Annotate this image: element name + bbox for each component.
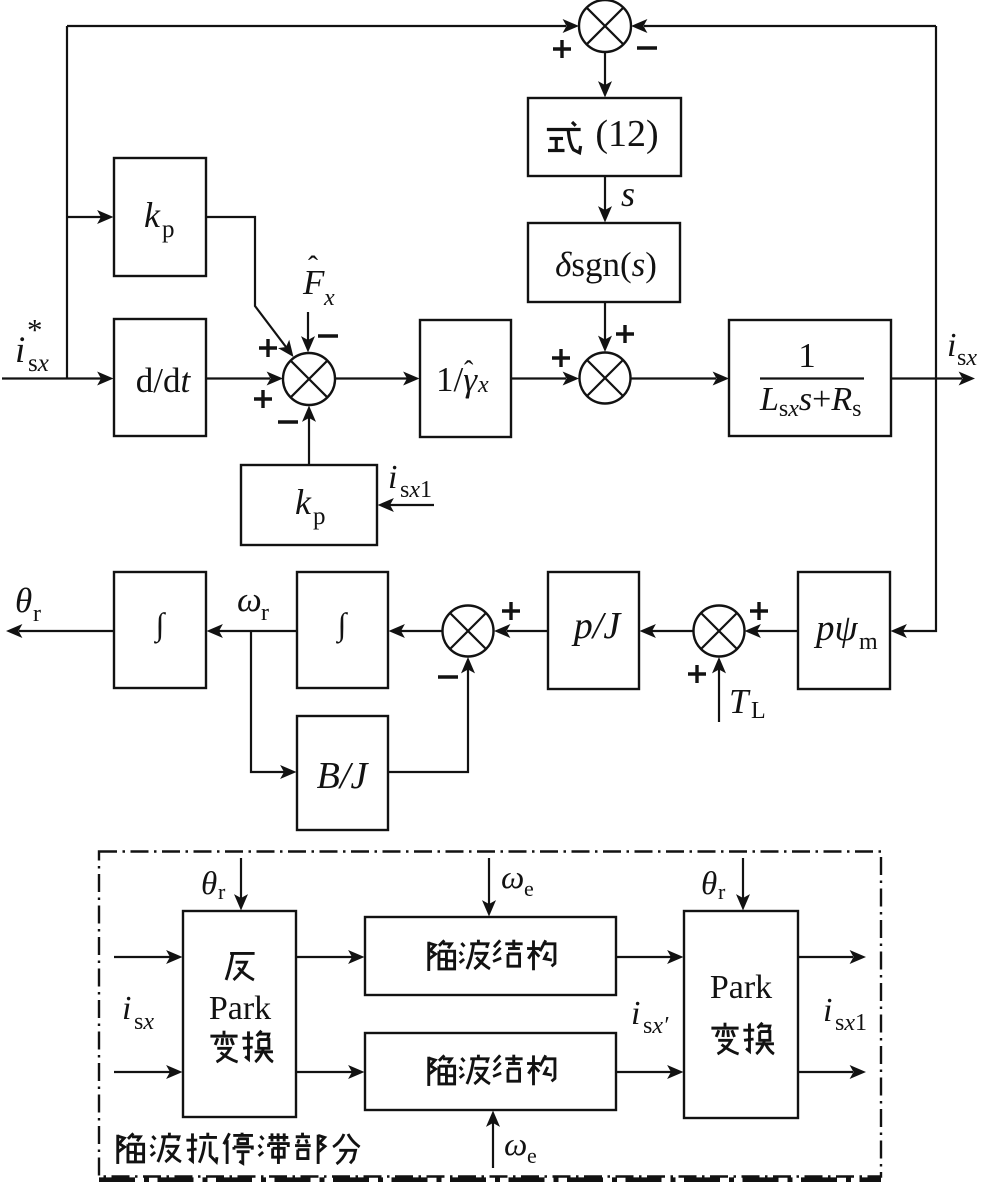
wire theta-r into PARK top	[736, 858, 750, 911]
wire IPARK to NOTCH1	[296, 950, 365, 964]
summing junction S2	[283, 353, 335, 405]
wire left vertical from S1 to input row	[66, 26, 68, 379]
svg-text:(12): (12)	[595, 113, 658, 155]
svg-text:B/J: B/J	[317, 755, 370, 797]
svg-text:sx′: sx′	[643, 1013, 669, 1039]
dash-dot enclosure notch-filter section	[99, 852, 881, 1177]
plus sign S3 left	[552, 349, 570, 367]
svg-text:sx: sx	[134, 1009, 154, 1035]
minus sign S2 bottom	[278, 420, 298, 423]
label section title notch anti-stagnation	[118, 1133, 360, 1164]
svg-text:ˆ: ˆ	[464, 356, 474, 387]
wire S3 to PLANT block	[631, 372, 730, 386]
block PARK transform	[684, 911, 798, 1118]
label isx bottom input	[122, 990, 154, 1035]
wire PLANT output isx	[891, 372, 975, 386]
block KP2 kp	[241, 465, 377, 545]
block PJ p/J	[548, 572, 639, 689]
wire Fx-hat into S2	[301, 312, 315, 353]
minus sign S2 top-right	[318, 334, 338, 337]
svg-text:e: e	[524, 876, 534, 901]
svg-text:∫: ∫	[336, 606, 349, 644]
label EQ12 text shi(12)	[547, 113, 659, 155]
block NOTCH1	[365, 917, 616, 995]
block PLANT 1/(Lsx s+Rs)	[729, 320, 891, 436]
wire theta-r into IPARK top	[234, 858, 248, 911]
wire BJ output up into S4	[388, 657, 475, 772]
block PSIM p-psi-m	[798, 572, 890, 689]
wire input isx upper into IPARK	[114, 950, 183, 964]
plus sign S2 lower-left	[254, 390, 272, 408]
wire omega-e into NOTCH2 bottom	[486, 1111, 500, 1169]
svg-text:r: r	[261, 600, 269, 626]
wire INT2 to INT1	[207, 624, 298, 638]
wire branch into KP1	[67, 210, 114, 224]
wire S5 to PJ	[640, 624, 694, 638]
svg-text:r: r	[33, 601, 41, 627]
wire input isx lower into IPARK	[114, 1065, 183, 1079]
label isx-prime	[631, 995, 669, 1039]
label omega-e top	[501, 860, 534, 901]
fraction bar PLANT	[760, 377, 864, 379]
label TL	[729, 682, 766, 724]
block INT2 integrator	[297, 572, 388, 688]
wire S4 to INT2	[389, 624, 443, 638]
svg-text:ω: ω	[501, 860, 524, 896]
svg-text:i: i	[122, 990, 131, 1027]
svg-text:θ: θ	[201, 866, 217, 902]
svg-text:*: *	[27, 312, 43, 347]
wire PARK output lower isx1	[798, 1065, 866, 1079]
block INT1 integrator	[114, 572, 206, 688]
wire S1 to box EQ12	[598, 52, 612, 98]
svg-text:ω: ω	[237, 580, 262, 619]
plus sign S2 upper-left	[259, 339, 277, 357]
svg-text:r: r	[218, 879, 226, 904]
svg-text:δsgn(s): δsgn(s)	[555, 245, 657, 284]
svg-text:i: i	[823, 992, 832, 1029]
svg-text:∫: ∫	[154, 606, 167, 644]
wire PJ to S4	[494, 624, 548, 638]
svg-text:θ: θ	[701, 866, 717, 902]
label omega-r	[237, 580, 269, 626]
svg-text:sx: sx	[28, 350, 49, 377]
svg-text:Park: Park	[710, 969, 772, 1006]
svg-text:d/dt: d/dt	[136, 361, 192, 400]
svg-text:x: x	[477, 372, 489, 398]
label isx output	[947, 327, 977, 371]
block KP1 kp	[114, 158, 206, 276]
wire input i*sx to d/dt	[2, 372, 114, 386]
label theta-r output	[15, 581, 41, 627]
svg-text:k: k	[295, 482, 312, 522]
wire top-right feedback into S1	[631, 19, 936, 33]
wire isx1 into KP2	[378, 498, 435, 512]
svg-text:1: 1	[798, 336, 816, 375]
wire omega-r branch down to BJ	[251, 631, 284, 772]
svg-text:Lsxs+Rs: Lsxs+Rs	[759, 381, 861, 422]
svg-text:i: i	[947, 327, 956, 364]
wire EQ12 to DSGN with node s	[598, 176, 612, 223]
wire PARK output upper isx1	[798, 950, 866, 964]
svg-text:sx1: sx1	[400, 477, 432, 503]
label theta-r above PARK	[701, 866, 726, 904]
svg-text:sx1: sx1	[835, 1010, 867, 1036]
wire IPARK to NOTCH2	[296, 1065, 365, 1079]
svg-text:θ: θ	[15, 581, 32, 620]
svg-text:T: T	[729, 682, 751, 721]
svg-text:r: r	[718, 879, 726, 904]
wire KP2 up into S2	[302, 406, 316, 466]
summing junction S1 top	[579, 0, 631, 52]
plus sign S1 left	[553, 40, 571, 58]
wire NOTCH1 to PARK	[616, 950, 684, 964]
svg-text:ω: ω	[504, 1127, 527, 1163]
wire theta-r output arrow	[6, 624, 114, 638]
svg-text:i: i	[388, 459, 397, 496]
minus sign S4 bottom-left	[438, 675, 458, 678]
label NOTCH2 text	[429, 1055, 555, 1086]
svg-text:m: m	[859, 629, 878, 655]
label GAMMA text	[436, 356, 489, 399]
label isx1 output	[823, 992, 867, 1036]
plus sign S5 right	[750, 602, 768, 620]
wire omega-e into NOTCH1 top	[482, 858, 496, 917]
wire KP1 output to S2 diagonal	[206, 217, 299, 361]
svg-text:x: x	[323, 285, 335, 311]
svg-text:p: p	[162, 216, 175, 243]
svg-text:i: i	[15, 330, 25, 371]
wire GAMMA to S3	[511, 372, 579, 386]
label IPARK text fan Park bianhuan	[209, 953, 273, 1062]
block EQ12	[528, 98, 681, 176]
block DDT d/dt	[114, 319, 206, 436]
plus sign S5 bottom-left	[688, 665, 706, 683]
plus sign S3 top	[616, 325, 634, 343]
block NOTCH2	[365, 1033, 616, 1110]
minus sign S1 right	[637, 46, 657, 49]
wire PSIM to S5	[745, 624, 799, 638]
summing junction S5	[694, 606, 745, 657]
wire NOTCH2 to PARK	[616, 1065, 684, 1079]
label Fx-hat	[302, 250, 335, 311]
label KP1 text	[144, 195, 175, 243]
label KP2 text	[295, 482, 326, 530]
svg-text:p: p	[313, 503, 326, 530]
arrowhead into BJ block	[280, 765, 296, 779]
arrowhead into PSIM block	[891, 624, 907, 638]
svg-text:e: e	[527, 1143, 537, 1168]
label PSIM text	[813, 608, 878, 655]
block IPARK inverse park	[183, 911, 296, 1117]
block BJ B/J	[297, 716, 388, 830]
label NOTCH1 text	[429, 940, 555, 971]
label theta-r above IPARK	[201, 866, 226, 904]
svg-text:pψ: pψ	[813, 608, 859, 649]
wire DDT to S2	[206, 372, 283, 386]
summing junction S4	[443, 606, 494, 657]
block GAMMA 1/gamma-hat	[420, 320, 511, 437]
block DSGN deltasgn	[528, 223, 680, 302]
thick cropped dash line bottom	[99, 1177, 881, 1182]
svg-text:p/J: p/J	[571, 605, 623, 647]
wire S2 to GAMMA block	[335, 372, 420, 386]
svg-text:ˆ: ˆ	[308, 250, 318, 283]
svg-text:Park: Park	[209, 990, 271, 1027]
svg-text:sx: sx	[957, 345, 977, 371]
svg-text:L: L	[751, 698, 766, 724]
plus sign S4 right	[502, 602, 520, 620]
svg-text:k: k	[144, 195, 161, 235]
svg-text:s: s	[621, 174, 635, 214]
wire TL into S5	[712, 657, 726, 722]
wire feedback right vertical	[903, 26, 936, 631]
svg-text:i: i	[631, 995, 640, 1032]
label PARK text	[710, 969, 774, 1054]
label omega-e bottom	[504, 1127, 537, 1168]
wire DSGN to S3	[598, 302, 612, 352]
label isx1 at KP2	[388, 459, 432, 503]
label i*sx input	[15, 312, 49, 377]
wire top-left into S1	[67, 19, 579, 33]
summing junction S3	[580, 353, 631, 404]
